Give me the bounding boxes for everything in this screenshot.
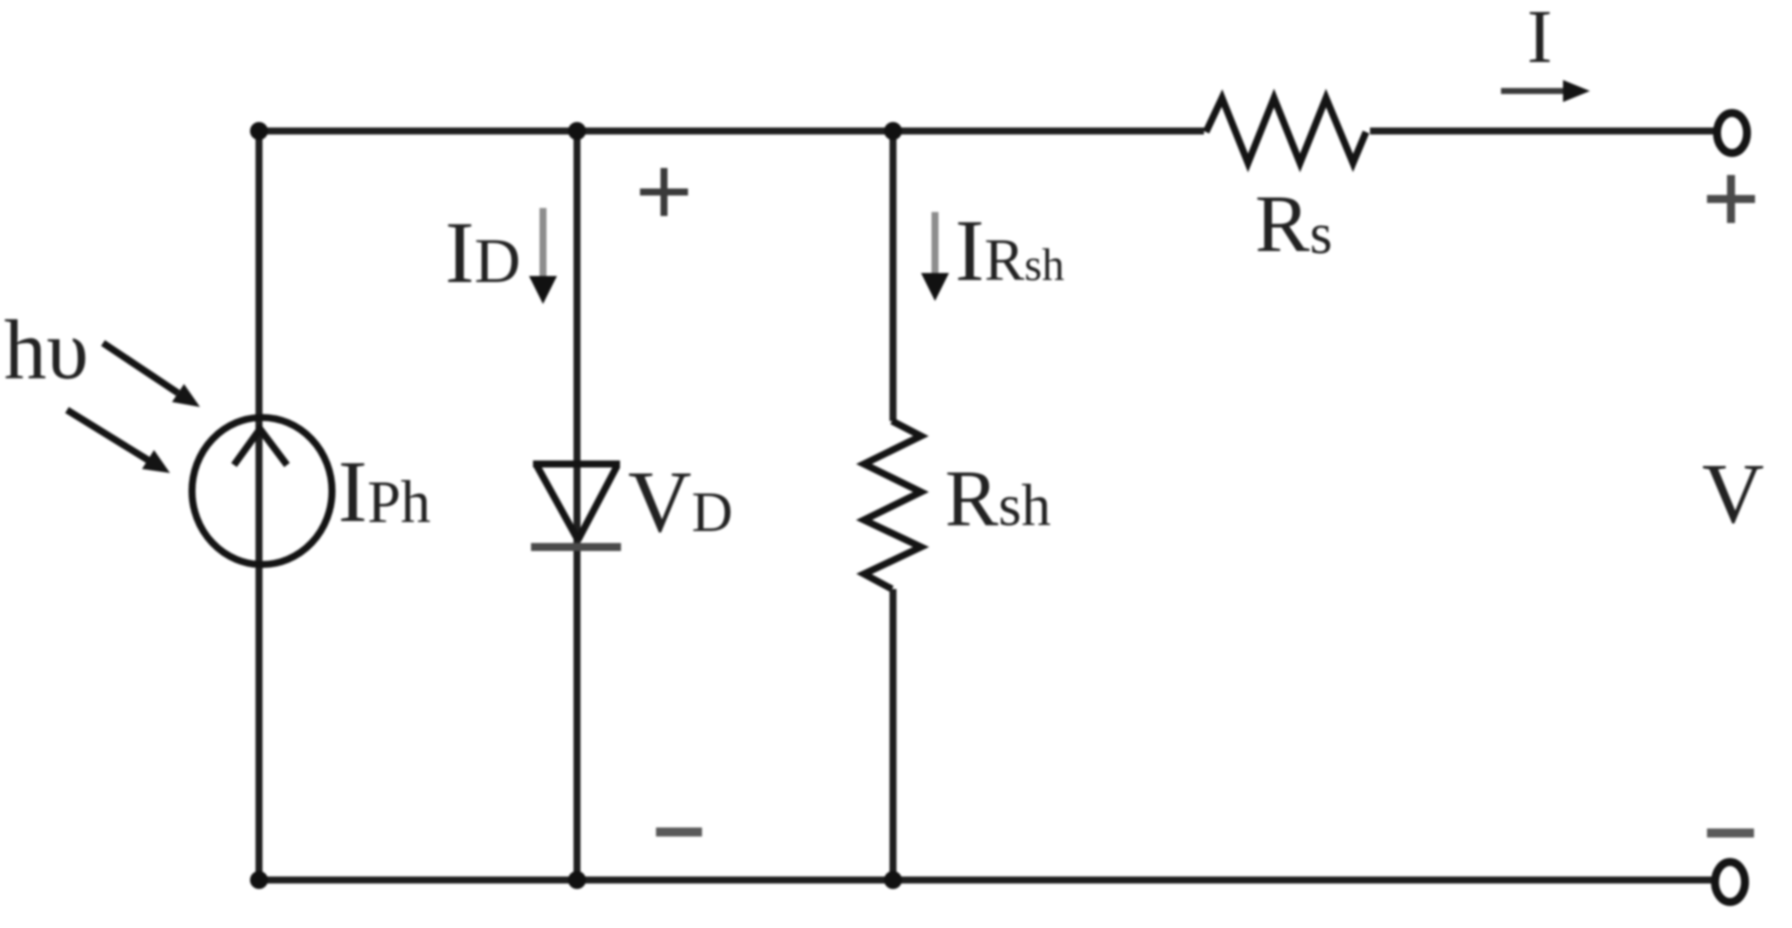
svg-text:I: I	[1527, 0, 1552, 79]
resistor Rs	[1206, 98, 1366, 163]
svg-text:Rsh: Rsh	[945, 455, 1051, 543]
junction node top shunt	[884, 122, 902, 140]
photon arrow 2	[67, 410, 148, 460]
wire shunt branch lower	[890, 589, 897, 880]
current source IPh arrow head (upward)	[234, 429, 287, 465]
junction node bottom diode	[568, 871, 586, 889]
junction node top diode	[568, 122, 586, 140]
resistor Rsh	[864, 421, 921, 589]
svg-text:VD: VD	[628, 454, 733, 551]
junction node bottom shunt	[884, 871, 902, 889]
plus sign (output terminal)	[1707, 195, 1755, 203]
current source IPh circle	[192, 418, 332, 565]
plus sign (diode branch top)	[640, 189, 688, 196]
terminal - (bottom right)	[1715, 862, 1745, 902]
terminal + (top right)	[1717, 113, 1747, 153]
output current I arrow	[1501, 88, 1566, 94]
wire left branch (photocurrent source branch)	[256, 131, 263, 880]
svg-text:ID: ID	[445, 205, 521, 302]
diode D cathode bar	[531, 543, 621, 551]
wire top bus left segment (node A to Rs)	[259, 128, 1204, 135]
svg-text:hυ: hυ	[4, 303, 89, 397]
minus sign (output terminal)	[1707, 829, 1754, 838]
svg-text:IRsh: IRsh	[955, 203, 1064, 300]
wire diode branch	[574, 131, 581, 880]
wire top bus right segment (Rs to + terminal)	[1370, 128, 1716, 135]
current ID arrow	[540, 208, 547, 278]
wire shunt branch upper	[890, 131, 897, 421]
current IRsh arrow	[932, 212, 939, 275]
svg-text:Rs: Rs	[1255, 178, 1332, 269]
diode D anode bar	[533, 461, 620, 468]
minus sign (diode branch bottom)	[656, 828, 702, 837]
diode D triangle right side	[578, 466, 617, 540]
svg-text:V: V	[1702, 445, 1764, 541]
diode D triangle left side	[537, 466, 578, 540]
wire bottom bus	[259, 877, 1716, 884]
junction node bottom-left	[250, 871, 268, 889]
junction node top-left	[250, 122, 268, 140]
svg-text:IPh: IPh	[338, 444, 431, 541]
photon arrow 1	[103, 343, 178, 393]
